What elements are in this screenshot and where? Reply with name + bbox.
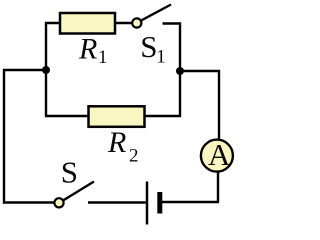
- wire: battery to switch S fixed contact: [88, 201, 146, 203]
- svg-text:S: S: [61, 155, 78, 190]
- node: right junction: [176, 67, 184, 75]
- svg-text:R: R: [107, 126, 126, 159]
- svg-text:S: S: [140, 29, 157, 64]
- battery: short thick plate (negative): [157, 192, 162, 214]
- svg-text:1: 1: [98, 47, 108, 68]
- wire: R1 to S1 pivot: [116, 22, 133, 24]
- wire: ammeter bottom down and left to battery positive plate: [160, 171, 218, 203]
- resistor R1: [60, 13, 115, 34]
- svg-text:2: 2: [129, 145, 139, 166]
- label S1: [140, 29, 165, 68]
- switch S (open): pivot circle and lever: [54, 182, 94, 208]
- battery: long thin plate (positive): [146, 182, 149, 225]
- label S: [61, 155, 78, 190]
- label R2: [107, 126, 139, 166]
- resistor R2: [89, 106, 145, 127]
- switch S1 (open): pivot circle and lever: [132, 5, 171, 28]
- svg-text:A: A: [208, 137, 231, 172]
- ammeter A: [201, 137, 233, 172]
- node: left junction: [42, 66, 50, 74]
- svg-text:R: R: [78, 32, 97, 65]
- wire: left junction up and right to R1: [46, 23, 60, 71]
- wire: left rail (left junction to bottom-left corner to switch S): [4, 70, 54, 203]
- label R1: [78, 32, 108, 68]
- wire: right junction down to R2 right lead: [145, 70, 180, 116]
- wire: left junction down and right to R2: [46, 69, 89, 116]
- wire: S1 fixed contact to top-right corner down to right junction: [163, 24, 181, 72]
- wire: right junction right and down to ammeter: [180, 71, 219, 140]
- svg-text:1: 1: [156, 46, 166, 67]
